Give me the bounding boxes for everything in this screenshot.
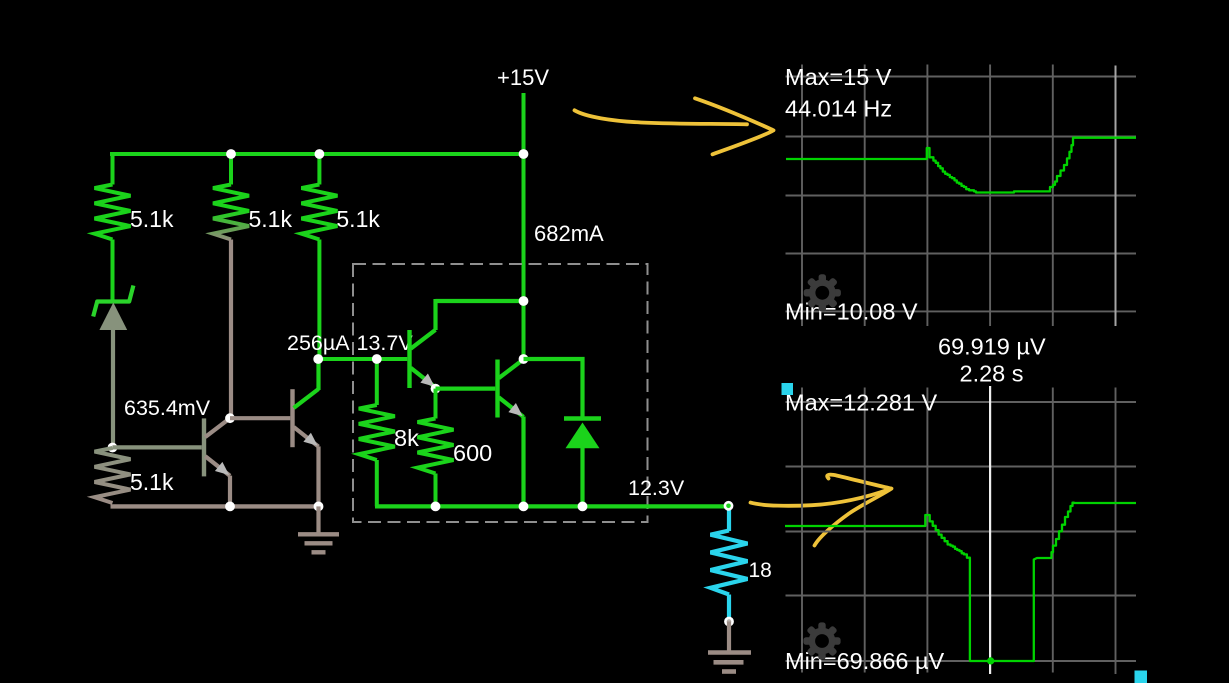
wire top +15V rail xyxy=(110,152,524,156)
node supply junction upper xyxy=(519,296,529,306)
scope 1 grid xyxy=(786,76,1137,78)
zener diode D1 anode triangle xyxy=(99,303,127,331)
transistor Q4 xyxy=(495,360,499,418)
node 13.7V junction right xyxy=(372,354,382,364)
node top rail junction R3 xyxy=(315,149,325,159)
wire R1 to zener xyxy=(111,240,115,301)
svg-text:635.4mV: 635.4mV xyxy=(124,396,211,420)
node Q3 emitter junction xyxy=(431,384,441,394)
dashed subcircuit box xyxy=(353,264,648,522)
svg-text:13.7V: 13.7V xyxy=(357,331,414,355)
resistor R2 5.1k top lead xyxy=(229,154,233,185)
ground symbol G2 stem xyxy=(727,622,731,652)
resistor R5 8k top lead xyxy=(375,359,379,405)
node top rail junction supply xyxy=(519,149,529,159)
ground symbol G2 bars xyxy=(708,650,751,655)
wire main +15V vertical xyxy=(522,154,526,359)
resistor R6 600 xyxy=(418,419,454,474)
svg-text:2.28 s: 2.28 s xyxy=(960,361,1024,387)
zener diode D1 cathode xyxy=(93,286,133,317)
scope 1 trace xyxy=(786,138,1136,193)
node Q4 collector junction xyxy=(519,354,529,364)
transistor Q3 xyxy=(407,330,411,388)
annotation arrow 1 shaft xyxy=(575,110,748,124)
resistor R3 5.1k top lead xyxy=(317,154,321,185)
scope 2 grid xyxy=(786,401,1137,403)
wire R2 bottom to Q1 collector node xyxy=(229,240,233,419)
wire zener anode to node xyxy=(111,329,115,449)
svg-text:+15V: +15V xyxy=(497,65,549,90)
wire diode anode to output rail xyxy=(580,447,584,506)
node R7 bottom terminal xyxy=(724,617,734,627)
scope 2 selection marker bottom xyxy=(1135,671,1148,683)
wire Q1 collector to Q2 base xyxy=(230,416,290,420)
wire gray ground rail xyxy=(111,504,319,508)
resistor R1 5.1k xyxy=(95,185,131,240)
node output rail junction emitter xyxy=(519,502,529,512)
node output rail junction diode xyxy=(578,502,588,512)
wire diode top feed xyxy=(524,359,583,419)
ground symbol G1 bars xyxy=(298,532,339,536)
diode D2 cathode bar xyxy=(564,416,601,420)
svg-text:18: 18 xyxy=(749,559,772,582)
scope 2 trace xyxy=(785,503,1136,661)
scope 2 trace min marker xyxy=(987,657,994,664)
svg-text:44.014 Hz: 44.014 Hz xyxy=(785,96,892,122)
resistor R6 bottom lead xyxy=(434,474,438,507)
wire Q2 emitter down to ground node xyxy=(316,446,320,506)
wire output rail 12.3V xyxy=(375,504,729,508)
wire 13.7V node horizontal xyxy=(317,357,407,361)
svg-text:256µA: 256µA xyxy=(287,331,350,355)
resistor R7 18 selected xyxy=(711,531,748,595)
scope 1 gear icon xyxy=(804,274,841,311)
transistor Q2 xyxy=(290,389,294,447)
scope 2 gear icon xyxy=(803,622,840,659)
node ground rail junction right xyxy=(314,502,324,512)
svg-text:Max=12.281 V: Max=12.281 V xyxy=(785,390,938,416)
node 13.7V junction left xyxy=(313,354,323,364)
wire Q1 emitter to ground rail xyxy=(228,476,232,507)
svg-text:Max=15 V: Max=15 V xyxy=(785,64,892,90)
svg-text:8k: 8k xyxy=(394,425,419,451)
resistor R5 8k xyxy=(359,405,395,460)
resistor R7 bottom lead xyxy=(727,595,731,621)
node ground rail junction left xyxy=(225,502,235,512)
resistor R3 5.1k xyxy=(301,185,337,240)
svg-text:12.3V: 12.3V xyxy=(628,476,685,500)
annotation arrow 2 head xyxy=(815,475,892,546)
svg-text:5.1k: 5.1k xyxy=(336,206,380,232)
diode D2 triangle xyxy=(566,423,600,449)
scope 2 time cursor xyxy=(989,386,991,674)
svg-text:5.1k: 5.1k xyxy=(249,206,293,232)
wire Q4 base xyxy=(436,387,496,391)
wire Q3 collector to supply xyxy=(436,299,524,303)
node output rail junction 600 xyxy=(431,502,441,512)
wire R3 bottom to 256uA node xyxy=(317,240,321,360)
wire +15V supply drop xyxy=(522,93,526,156)
svg-text:Min=10.08 V: Min=10.08 V xyxy=(785,299,918,325)
annotation arrow 2 shaft xyxy=(751,489,892,506)
node output terminal xyxy=(724,501,734,511)
resistor R6 600 top lead xyxy=(434,389,438,419)
svg-text:5.1k: 5.1k xyxy=(130,206,174,232)
node Q1 collector junction xyxy=(225,413,235,423)
ground symbol G1 stem xyxy=(316,506,320,533)
svg-text:682mA: 682mA xyxy=(534,221,604,246)
node 635.4mV junction xyxy=(108,443,118,453)
resistor R1 5.1k top lead xyxy=(111,154,115,185)
annotation arrow 1 head xyxy=(695,98,774,154)
resistor R5 bottom lead xyxy=(375,460,379,506)
wire base of Q1 xyxy=(113,445,202,449)
node top rail junction R2 xyxy=(226,149,236,159)
wire Q4 emitter to output rail xyxy=(521,417,525,507)
wire Q3 collector lead xyxy=(433,299,437,330)
wire R7 top lead cyan xyxy=(727,508,731,531)
svg-text:600: 600 xyxy=(453,440,492,466)
svg-text:69.919 µV: 69.919 µV xyxy=(938,334,1046,360)
scope 2 selection marker top xyxy=(782,383,794,395)
wire Q2 collector up to 256uA node xyxy=(316,359,320,390)
transistor Q1 xyxy=(202,418,206,476)
svg-text:5.1k: 5.1k xyxy=(130,469,174,495)
